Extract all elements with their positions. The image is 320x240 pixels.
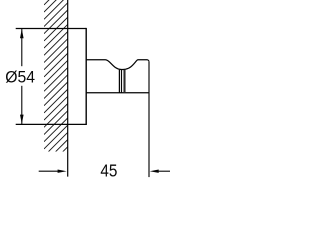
plate bottom edge with extension line <box>16 123 87 125</box>
hook bottom edge <box>86 92 149 94</box>
groove silhouette line 1 <box>118 70 120 93</box>
dimension line Ø54 lower segment <box>21 86 23 125</box>
arrowhead down <box>20 115 24 124</box>
hook body top profile with groove dip and front corner <box>86 60 149 70</box>
wall face line <box>67 0 69 177</box>
svg-text:45: 45 <box>100 161 117 181</box>
arrowhead right (toward wall face) <box>58 170 67 173</box>
wall hatching <box>44 0 68 178</box>
dimension line Ø54 upper segment <box>21 29 23 67</box>
arrowhead left (toward hook front) <box>150 170 159 173</box>
plate face line <box>85 28 87 125</box>
arrowhead up <box>20 29 24 38</box>
hook front face with extension line <box>148 62 150 177</box>
dimension 45 right tail line <box>158 170 170 172</box>
groove silhouette line 2 <box>121 70 123 93</box>
groove silhouette line 3 <box>123 70 125 93</box>
dimension 45 left tail line <box>39 170 59 172</box>
svg-text:Ø54: Ø54 <box>5 68 35 87</box>
plate top edge with extension line <box>16 28 87 30</box>
